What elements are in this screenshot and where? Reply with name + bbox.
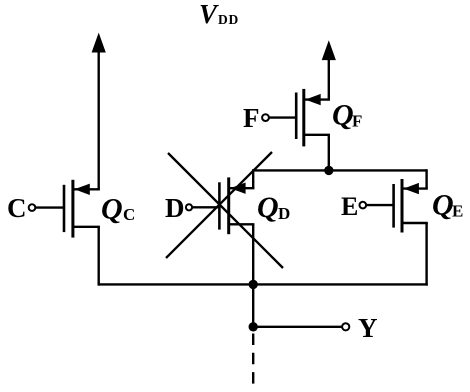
label QF [332, 98, 362, 131]
dashed wire continuation below Y node [252, 334, 254, 386]
svg-text:Q: Q [332, 98, 354, 131]
svg-text:E: E [341, 192, 358, 221]
svg-text:C: C [7, 193, 27, 223]
svg-text:D: D [278, 204, 290, 223]
svg-text:Y: Y [358, 313, 378, 343]
svg-text:Q: Q [432, 189, 454, 222]
label QE [432, 189, 463, 222]
terminal circle D [186, 204, 192, 210]
svg-text:F: F [243, 103, 260, 133]
wire mid bus to QD drain [252, 169, 254, 188]
wire E to QE gate [366, 204, 393, 206]
wire Y node to terminal [253, 326, 342, 328]
svg-text:DD: DD [218, 12, 239, 27]
terminal circle E [360, 202, 367, 209]
cross-out line B over QD [166, 152, 272, 258]
transistor QF [296, 89, 330, 146]
net VDD label [199, 0, 239, 29]
junction dot Y node [249, 322, 258, 331]
transistor QD [219, 177, 254, 234]
bottom bus wire [98, 283, 428, 285]
label QC [101, 193, 135, 226]
wire F to QF gate [269, 116, 296, 118]
wire QF drain to mid bus [328, 135, 330, 172]
svg-text:F: F [352, 112, 362, 131]
svg-text:Q: Q [257, 191, 279, 224]
label QD [257, 191, 290, 224]
wire QD source to bottom bus [252, 224, 254, 284]
wire D to QD gate [192, 206, 219, 208]
junction dot QD/bottom bus [249, 280, 258, 289]
svg-text:E: E [452, 202, 463, 221]
svg-text:Q: Q [101, 193, 123, 226]
svg-text:C: C [123, 205, 135, 224]
svg-text:D: D [165, 193, 185, 223]
terminal circle C [29, 204, 36, 211]
mid bus wire [253, 169, 426, 171]
terminal circle F [262, 114, 269, 121]
svg-text:V: V [199, 0, 219, 29]
cross-out line A over QD [168, 153, 283, 268]
junction dot QF/mid bus [324, 166, 333, 175]
wire QC source to bottom bus [97, 227, 99, 286]
power arrow to VDD (left, QC drain) [92, 33, 106, 190]
wire bottom bus to Y node [252, 284, 254, 326]
transistor QC [64, 180, 100, 238]
power arrow to VDD (right, QF source) [322, 40, 336, 99]
wire QE source to bottom bus [425, 223, 427, 286]
transistor QE [394, 179, 428, 233]
wire mid bus to QE drain [425, 169, 427, 188]
terminal circle Y [342, 323, 349, 330]
wire C to QC gate [36, 206, 65, 208]
